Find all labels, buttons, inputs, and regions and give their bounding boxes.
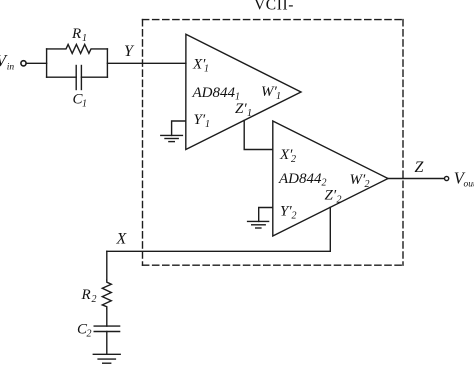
resistor R2 <box>102 280 111 309</box>
svg-text:2: 2 <box>365 179 370 190</box>
dashed box VCII right edge <box>402 20 404 266</box>
wire RC box right edge <box>106 49 108 77</box>
terminal Vin <box>21 61 26 66</box>
svg-text:AD844: AD844 <box>278 171 322 187</box>
label AD844_1 <box>192 85 241 103</box>
label Y'2 <box>280 204 297 222</box>
svg-text:in: in <box>7 63 15 73</box>
label C2 <box>77 322 92 340</box>
label W'1 <box>261 84 281 102</box>
wire R2 to C2 <box>106 309 108 327</box>
ground G1 <box>161 135 183 141</box>
svg-text:VCII-: VCII- <box>254 0 294 14</box>
svg-text:out: out <box>464 180 474 190</box>
svg-text:2: 2 <box>92 294 97 305</box>
label C1 <box>73 92 88 110</box>
label R1 <box>71 26 87 44</box>
wire C2 to ground <box>106 332 108 355</box>
capacitor C1 <box>47 66 108 90</box>
svg-text:2: 2 <box>292 211 297 222</box>
resistor R1 <box>47 44 108 53</box>
op-amp U1 AD844_1 triangle <box>186 34 301 149</box>
svg-text:Z′: Z′ <box>325 188 337 204</box>
ground G3 <box>93 354 120 363</box>
wire RC box left edge <box>46 49 48 77</box>
label Vin <box>0 51 14 72</box>
wire Y'1 to ground <box>172 121 186 135</box>
label R2 <box>81 287 97 305</box>
svg-text:1: 1 <box>205 119 210 130</box>
label X'1 <box>192 57 209 75</box>
terminal Vout <box>445 176 449 180</box>
svg-text:1: 1 <box>204 64 209 75</box>
svg-text:1: 1 <box>247 108 252 119</box>
label W'2 <box>350 172 370 190</box>
label Z'2 <box>325 188 342 206</box>
wire Z'2 down to node X bus <box>107 207 330 251</box>
svg-text:2: 2 <box>337 195 342 206</box>
svg-text:R: R <box>81 287 91 303</box>
svg-text:Y′: Y′ <box>194 112 206 128</box>
op-amp U2 AD844_2 triangle <box>273 121 388 236</box>
dashed box VCII top edge <box>143 19 404 21</box>
label AD844_2 <box>278 171 327 189</box>
wire W'2 apex to output terminal Z <box>388 178 445 180</box>
capacitor C2 <box>94 326 119 331</box>
label Y'1 <box>194 112 211 130</box>
dashed box VCII bottom edge <box>143 264 404 266</box>
svg-text:1: 1 <box>82 33 87 44</box>
svg-text:2: 2 <box>87 329 92 340</box>
label Z'1 <box>235 101 252 119</box>
svg-text:Z: Z <box>415 159 425 176</box>
svg-text:1: 1 <box>82 99 87 110</box>
wire node X down to R2 <box>106 251 108 280</box>
svg-text:Y′: Y′ <box>280 204 292 220</box>
wire Y'2 to ground <box>259 208 273 222</box>
svg-text:Z′: Z′ <box>235 101 247 117</box>
svg-text:AD844: AD844 <box>192 85 236 101</box>
ground G2 <box>248 221 269 228</box>
svg-text:X: X <box>116 230 128 247</box>
wire Vin to RC network <box>26 62 46 64</box>
svg-text:1: 1 <box>276 91 281 102</box>
label Vout <box>454 169 474 190</box>
label X'2 <box>279 147 296 165</box>
svg-text:2: 2 <box>291 154 296 165</box>
wire Y node to op-amp U1 input X'1 <box>107 62 185 64</box>
svg-text:R: R <box>71 26 81 42</box>
dashed box VCII left edge <box>142 20 144 266</box>
wire Z'1 to X'2 <box>244 120 273 149</box>
